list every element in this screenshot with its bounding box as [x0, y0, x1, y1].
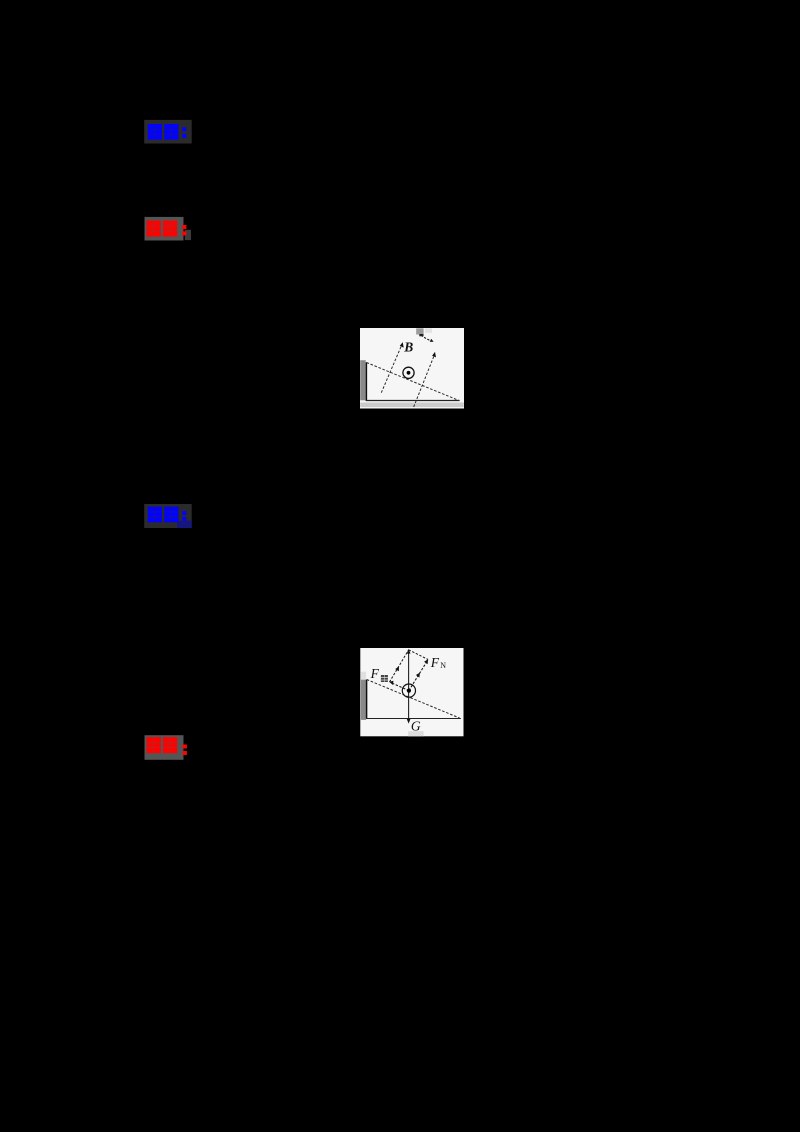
- svg-text:G: G: [411, 718, 421, 733]
- ground shading band: [360, 402, 464, 407]
- gray band under G: [408, 731, 424, 736]
- wall gray strip: [360, 360, 366, 400]
- incline hypotenuse: [367, 362, 459, 400]
- svg-text:F: F: [370, 666, 380, 681]
- gravity arrow G down: [408, 690, 410, 720]
- wall gray strip: [361, 679, 366, 719]
- wire circle (current out of page): [403, 367, 414, 378]
- rotation arc arrow: [421, 335, 431, 341]
- label answer-1 (blue): [144, 119, 194, 145]
- field line B1: [381, 344, 402, 392]
- wall light square: [361, 671, 366, 679]
- incline hypotenuse: [367, 679, 460, 718]
- normal force FN dashed ray: [409, 661, 427, 691]
- handle square light: [425, 328, 432, 333]
- diagram 2: force diagram on incline (FN, F_an, G): [360, 648, 464, 737]
- label analysis-1 (red): [144, 216, 194, 242]
- incline left edge: [366, 679, 368, 718]
- diagram 1: inclined plane with magnetic field B out of page: [360, 328, 464, 409]
- figure background: [360, 328, 464, 409]
- field line B2: [414, 355, 435, 407]
- incline bottom line: [366, 717, 461, 719]
- wire circle: [402, 684, 415, 697]
- label analysis-2 (red): [144, 734, 194, 761]
- parallelogram dashed side left: [390, 650, 409, 682]
- incline bottom line: [366, 399, 460, 401]
- svg-text:N: N: [440, 661, 446, 670]
- svg-text:F: F: [430, 655, 440, 670]
- handle square dark: [416, 328, 423, 334]
- label answer-2 (blue): [144, 503, 194, 529]
- equilibrant vertical arrow up: [408, 651, 410, 690]
- parallelogram dashed side right: [409, 650, 429, 660]
- incline left edge: [365, 362, 367, 401]
- svg-text:B: B: [403, 339, 413, 354]
- ampere force arrow: [392, 683, 409, 691]
- figure background: [360, 648, 463, 736]
